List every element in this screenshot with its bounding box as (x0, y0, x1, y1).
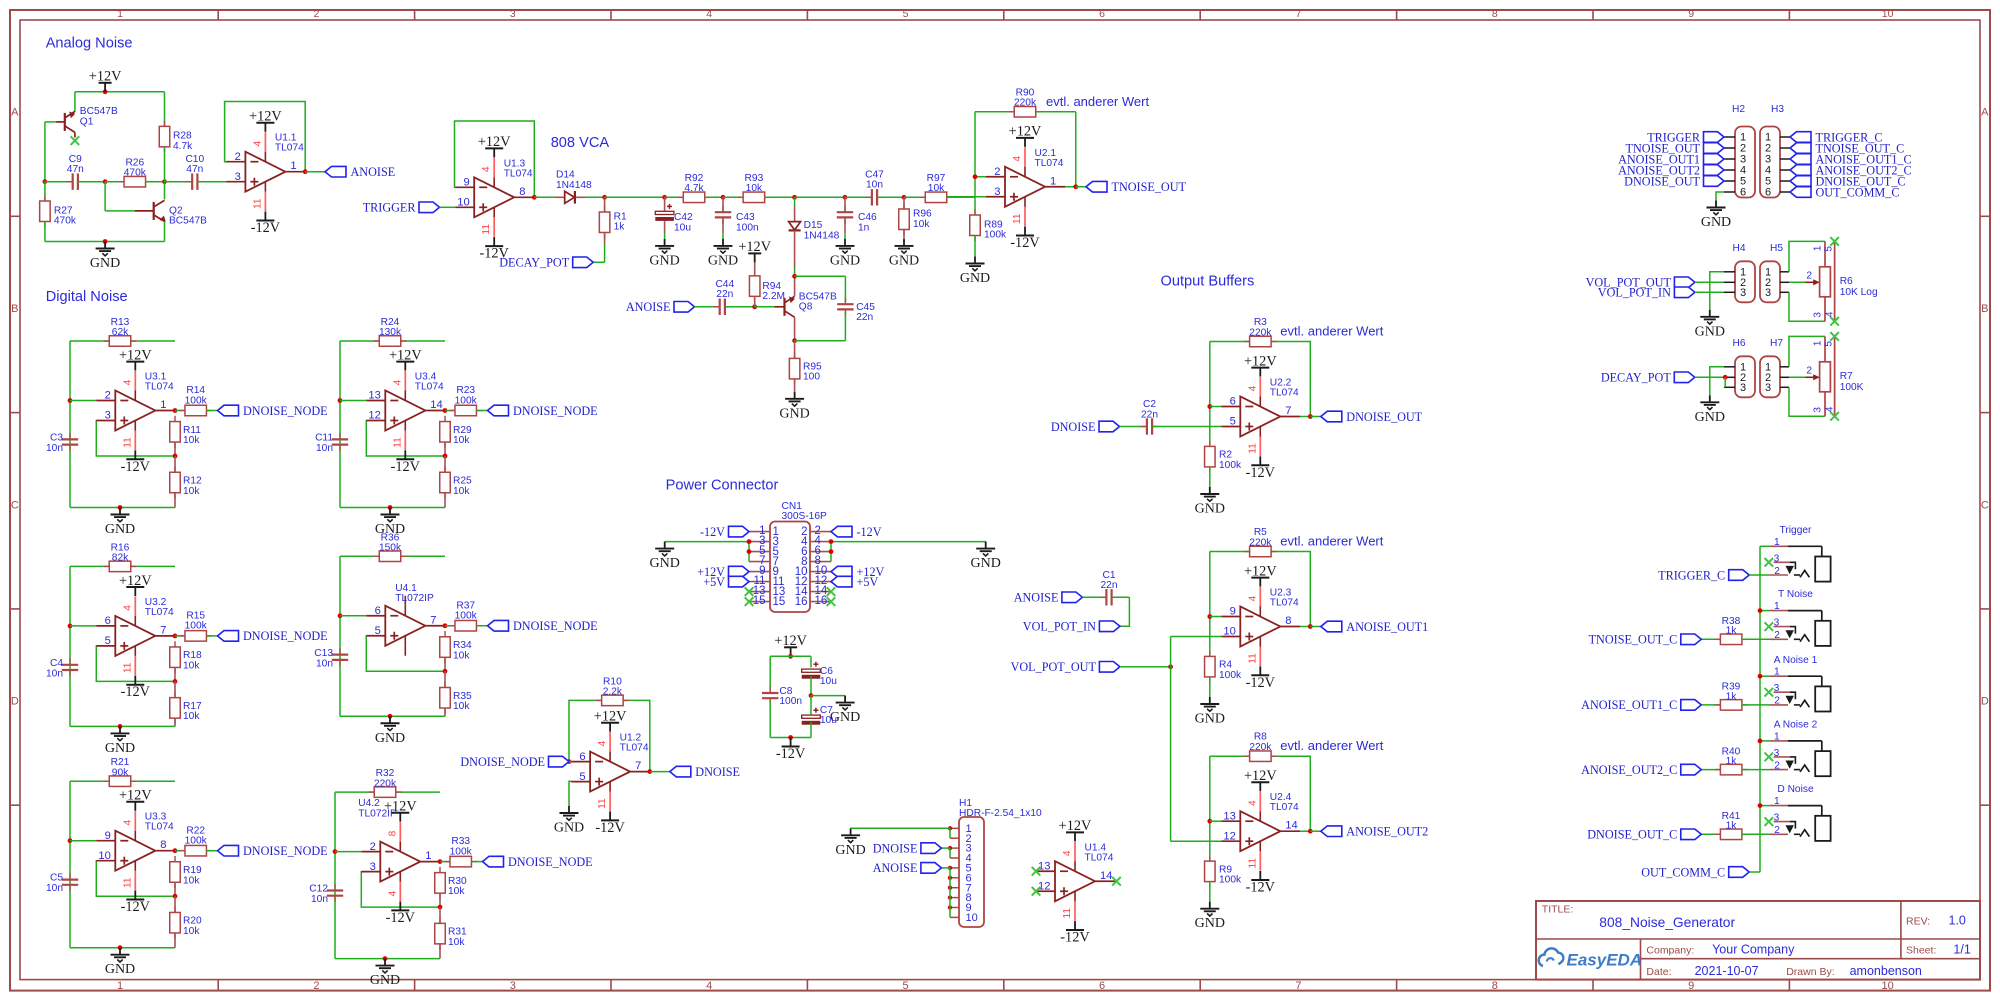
connector H1 (959, 817, 984, 927)
svg-text:4: 4 (122, 820, 133, 826)
pin H5 2 (1780, 281, 1789, 283)
wire CN1 gnd left (665, 541, 749, 543)
svg-text:1.0: 1.0 (1949, 914, 1966, 928)
junction C43 node (721, 195, 726, 200)
wire H7 pin3 to pot (1789, 387, 1825, 416)
svg-text:100n: 100n (736, 222, 759, 233)
capacitor C42 polarized (664, 197, 666, 211)
svg-text:TL074: TL074 (1035, 158, 1064, 169)
pin H1 7 (950, 887, 959, 889)
svg-text:2: 2 (1806, 365, 1812, 376)
wire H1 gnd (851, 827, 950, 829)
svg-text:300S-16P: 300S-16P (782, 511, 828, 522)
svg-text:TRIGGER: TRIGGER (363, 201, 417, 215)
resistor R4 (1205, 651, 1216, 683)
svg-text:5: 5 (903, 8, 909, 20)
resistor R33 output (440, 861, 450, 863)
svg-text:2: 2 (994, 166, 1000, 178)
svg-text:DNOISE_NODE: DNOISE_NODE (243, 629, 328, 643)
pin H2 5 (1724, 180, 1735, 182)
junction H6 pin2 (1723, 375, 1728, 380)
svg-text:GND: GND (971, 556, 1001, 571)
resistor R3 feedback (1244, 336, 1277, 347)
wire decoupling top (770, 655, 811, 657)
svg-text:1k: 1k (1726, 691, 1738, 702)
wire C1 to VOL_POT_IN (1120, 597, 1130, 626)
svg-text:11: 11 (392, 437, 403, 448)
svg-text:GND: GND (1695, 410, 1725, 425)
svg-text:OUT_COMM_C: OUT_COMM_C (1641, 865, 1725, 879)
svg-text:10n: 10n (46, 443, 63, 454)
title block (1536, 901, 1980, 980)
svg-text:13: 13 (368, 390, 380, 402)
resistor R32 feedback (369, 787, 402, 798)
wire H5 pin2 wiper (1789, 281, 1806, 283)
svg-text:14: 14 (430, 399, 442, 411)
svg-text:3: 3 (1774, 813, 1780, 824)
net flag OUT_COMM_C (1641, 865, 1749, 879)
svg-text:DNOISE_NODE: DNOISE_NODE (243, 404, 328, 418)
ground CN1 left (650, 542, 680, 572)
svg-text:-12V: -12V (251, 220, 281, 236)
svg-text:VOL_POT_IN: VOL_POT_IN (1023, 620, 1096, 634)
svg-text:1: 1 (1050, 175, 1056, 187)
pin CN1 4 (810, 541, 831, 543)
capacitor C7 polarized (810, 696, 812, 715)
junction C9 right (103, 179, 108, 184)
svg-text:4: 4 (252, 141, 263, 147)
svg-text:10k: 10k (183, 486, 200, 497)
pin H2 3 (1724, 158, 1735, 160)
wire H5 pin1 to pot (1789, 241, 1825, 271)
capacitor C13 (332, 648, 348, 666)
pin CN1 11 (749, 581, 770, 583)
wire U4.1 feedback top (340, 555, 445, 557)
pin H5 1 (1780, 271, 1789, 273)
svg-text:100k: 100k (185, 621, 208, 632)
svg-text:12: 12 (1038, 880, 1050, 892)
svg-text:22n: 22n (856, 312, 873, 323)
svg-text:4: 4 (706, 8, 712, 20)
capacitor C4 (62, 658, 78, 676)
capacitor C47 (845, 196, 872, 198)
wire U2.2 out (1310, 416, 1321, 418)
wire U2.1 out (1076, 186, 1086, 188)
svg-text:8: 8 (519, 186, 525, 198)
resistor R31 (439, 907, 441, 923)
svg-text:-12V: -12V (121, 684, 151, 700)
svg-text:10: 10 (1881, 980, 1893, 992)
wire U2.4 out stub link (1300, 830, 1310, 832)
resistor R34 (440, 631, 451, 663)
svg-text:5: 5 (105, 635, 111, 647)
svg-text:TRIGGER_C: TRIGGER_C (1658, 568, 1725, 582)
net flag DNOISE_OUT H2 (1624, 174, 1724, 188)
svg-text:TL074: TL074 (145, 382, 174, 393)
svg-text:220k: 220k (1249, 538, 1272, 549)
svg-text:4: 4 (481, 166, 492, 172)
wire U1.3 feedback (455, 121, 535, 197)
wire VOL_POT_IN H4 (1695, 291, 1724, 293)
pin CN1 7 (749, 561, 770, 563)
net flag TRIGGER_C jack (1658, 568, 1749, 582)
svg-text:ANOISE_OUT1: ANOISE_OUT1 (1346, 620, 1428, 634)
svg-text:10: 10 (98, 850, 110, 862)
svg-text:6: 6 (1099, 8, 1105, 20)
wire U3.4 left vertical (339, 341, 341, 508)
svg-text:4: 4 (1247, 800, 1258, 806)
ground U1.2 pin5 (554, 806, 584, 836)
ground R4 (1195, 697, 1225, 727)
svg-text:+5V: +5V (857, 575, 879, 589)
net flag VOL_POT_IN out (1023, 620, 1120, 634)
pin CN1 3 (749, 541, 770, 543)
wire U3.3 feedback top (70, 780, 175, 782)
wire U3.2 bottom (70, 725, 175, 727)
pin H6 1 (1724, 366, 1735, 368)
potentiometer R7 (1806, 336, 1835, 417)
connector H5 (1760, 261, 1780, 302)
svg-text:10k: 10k (746, 183, 763, 194)
svg-text:TNOISE_OUT_C: TNOISE_OUT_C (1589, 633, 1678, 647)
svg-text:3: 3 (1774, 553, 1780, 564)
svg-text:TL074: TL074 (620, 743, 649, 754)
svg-text:C11: C11 (315, 433, 333, 444)
svg-text:16: 16 (795, 596, 808, 608)
svg-text:4: 4 (1012, 156, 1023, 162)
resistor R39 (1701, 704, 1720, 706)
svg-text:11: 11 (252, 198, 263, 209)
pin H3 4 (1780, 169, 1791, 171)
svg-text:7: 7 (635, 760, 641, 772)
svg-text:14: 14 (1100, 870, 1112, 882)
junction U2.4 output (1308, 829, 1313, 834)
pin CN1 5 (749, 551, 770, 553)
svg-text:10k: 10k (913, 219, 930, 230)
svg-text:10: 10 (966, 912, 978, 924)
svg-text:3: 3 (1812, 407, 1823, 413)
junction rail (103, 89, 108, 94)
junction U3.4 ground (388, 505, 393, 510)
net flag ANOISE input VCA (626, 300, 695, 314)
transistor Q2 (135, 200, 166, 221)
svg-text:11: 11 (1247, 443, 1258, 454)
resistor R27 (44, 182, 46, 201)
resistor R93 (723, 196, 743, 198)
connector H2 (1735, 127, 1755, 198)
capacitor C12 (327, 884, 343, 902)
wire pin6 link (569, 761, 571, 763)
net flag ANOISE output (325, 165, 395, 179)
svg-text:808 VCA: 808 VCA (551, 135, 610, 151)
junction U3.3 divider (173, 894, 178, 899)
svg-text:4: 4 (1247, 385, 1258, 391)
wire left vertical (44, 122, 46, 182)
svg-text:10k: 10k (183, 926, 200, 937)
junction CN1 pin5 (747, 549, 752, 554)
resistor R20 (174, 896, 176, 912)
pin H1 4 (950, 857, 959, 859)
resistor R92 (665, 196, 684, 198)
resistor R95 (794, 341, 796, 359)
capacitor C45 branch (795, 275, 846, 277)
svg-text:EasyEDA: EasyEDA (1567, 951, 1643, 970)
svg-text:10n: 10n (866, 180, 883, 191)
svg-text:1k: 1k (614, 222, 626, 233)
net flag TNOISE_OUT H2 (1626, 141, 1724, 155)
svg-text:DNOISE_NODE: DNOISE_NODE (513, 404, 598, 418)
resistor R18 (170, 641, 181, 673)
svg-text:B: B (1981, 303, 1988, 315)
wire U2.2 left vertical (1209, 342, 1211, 447)
svg-text:4: 4 (597, 740, 608, 746)
svg-text:ANOISE: ANOISE (1014, 591, 1059, 605)
svg-text:8: 8 (387, 830, 398, 836)
svg-text:4: 4 (387, 890, 398, 896)
resistor R40 (1701, 769, 1720, 771)
junction U2.1 output (1073, 184, 1078, 189)
pin H1 3 (950, 847, 959, 849)
svg-text:-12V: -12V (121, 899, 151, 915)
junction bus A Noise 2 (1758, 739, 1763, 744)
resistor R19 (170, 856, 181, 888)
svg-text:4: 4 (1247, 595, 1258, 601)
pin CN1 10 (810, 571, 831, 573)
wire node down to U2.4 pin12 (1170, 667, 1172, 841)
wire U2.2 pin top link (1210, 406, 1222, 408)
wire U1.3 out to D14 (534, 196, 556, 198)
capacitor C11 (332, 433, 348, 451)
svg-text:+5V: +5V (703, 575, 725, 589)
svg-text:10: 10 (1882, 8, 1894, 20)
svg-text:3: 3 (1765, 287, 1771, 299)
junction CN1 pin3 (747, 539, 752, 544)
wire U2.3 out (1310, 626, 1321, 628)
svg-text:6: 6 (105, 615, 111, 627)
svg-text:TL072IP: TL072IP (358, 809, 397, 820)
svg-text:TL074: TL074 (1270, 598, 1299, 609)
net flag +5V CN1 pin12 (831, 575, 878, 589)
svg-text:3: 3 (510, 980, 516, 992)
svg-text:Output Buffers: Output Buffers (1161, 274, 1255, 290)
wire U2.3 feedback (1271, 552, 1310, 627)
wire U4.1 left vertical (339, 556, 341, 716)
resistor R14 output (175, 410, 185, 412)
wire bottom rail analog (45, 241, 165, 243)
resistor R12 (174, 456, 176, 472)
ground H6 (1695, 395, 1725, 425)
svg-text:H7: H7 (1770, 338, 1783, 349)
svg-text:10k: 10k (928, 183, 945, 194)
ground R2 (1195, 487, 1225, 517)
wire U3.3 pin top link (70, 840, 96, 842)
svg-text:-12V: -12V (1246, 880, 1276, 896)
pin H1 1 (950, 827, 959, 829)
wire U4.2 pin top link (335, 851, 361, 853)
svg-text:DNOISE_NODE: DNOISE_NODE (513, 619, 598, 633)
svg-text:TL074: TL074 (145, 822, 174, 833)
svg-text:3: 3 (1774, 683, 1780, 694)
junction D15 node (792, 195, 797, 200)
wire U2.1 out stub link (1065, 186, 1076, 188)
svg-text:10k: 10k (453, 701, 470, 712)
net flag DNOISE_NODE U3.3 (218, 844, 328, 858)
svg-text:Trigger: Trigger (1780, 525, 1812, 536)
wire U3.3 loop (95, 860, 98, 862)
wire Q2 emitter down (164, 221, 166, 241)
wire U4.1 bottom (340, 715, 445, 717)
ground H4 (1695, 310, 1725, 340)
no-connect R6 bottom (1830, 317, 1839, 326)
svg-text:4: 4 (1824, 406, 1835, 412)
svg-text:R8: R8 (1254, 732, 1267, 743)
svg-text:13: 13 (1223, 810, 1235, 822)
svg-text:3: 3 (105, 410, 111, 422)
capacitor C46 (844, 197, 846, 212)
net flag DECAY_POT (499, 256, 593, 270)
ground R95 (779, 392, 809, 422)
pin CN1 9 (749, 571, 770, 573)
wire U2.4 out (1310, 830, 1321, 832)
no-connect jack D Noise (1765, 817, 1774, 826)
svg-text:GND: GND (105, 522, 135, 537)
svg-text:100k: 100k (455, 395, 478, 406)
svg-text:GND: GND (830, 253, 860, 268)
no-connect CN1 pin14 (827, 587, 836, 596)
svg-text:6: 6 (1740, 187, 1746, 199)
wire U3.1 left vertical (69, 341, 71, 508)
ground U3.2 (105, 726, 135, 756)
svg-text:4: 4 (706, 980, 712, 992)
wire U3.4 pin top link (340, 400, 366, 402)
svg-text:evtl. anderer Wert: evtl. anderer Wert (1280, 534, 1383, 549)
jack T Noise (1760, 611, 1831, 646)
svg-text:90k: 90k (112, 767, 129, 778)
svg-text:3: 3 (994, 186, 1000, 198)
junction CN1 pin4 (829, 539, 834, 544)
wire U4.2 loop (360, 871, 363, 873)
svg-text:GND: GND (649, 253, 679, 268)
wire Q1 collector drop (74, 92, 76, 112)
svg-text:6: 6 (375, 605, 381, 617)
wire U2.2 out stub link (1300, 416, 1310, 418)
svg-text:11: 11 (597, 798, 608, 809)
svg-text:470k: 470k (124, 168, 147, 179)
svg-text:10: 10 (457, 197, 469, 209)
svg-text:GND: GND (835, 843, 865, 858)
svg-text:3: 3 (235, 171, 241, 183)
wire Q1 base to left rail (45, 121, 56, 123)
svg-text:GND: GND (779, 406, 809, 421)
svg-text:7: 7 (1285, 405, 1291, 417)
svg-text:4.7k: 4.7k (173, 141, 193, 152)
svg-text:1n: 1n (858, 222, 869, 233)
svg-text:-12V: -12V (391, 459, 421, 475)
resistor R25 (444, 456, 446, 472)
capacitor C10 (165, 181, 193, 183)
pin CN1 16 (810, 601, 831, 603)
net flag TRIGGER (363, 201, 440, 215)
net flag ANOISE H1 (941, 867, 950, 869)
svg-text:DNOISE_NODE: DNOISE_NODE (460, 755, 545, 769)
svg-text:Drawn By:: Drawn By: (1786, 966, 1834, 978)
svg-text:2: 2 (1774, 566, 1780, 577)
svg-text:1: 1 (1774, 667, 1780, 678)
ground H2 (1701, 201, 1731, 231)
svg-text:11: 11 (1247, 858, 1258, 869)
junction U3.4 divider (443, 454, 448, 459)
net flag TRIGGER_C H3 (1790, 130, 1883, 144)
svg-text:-12V: -12V (1246, 675, 1276, 691)
diode D15 (794, 197, 796, 206)
svg-text:3: 3 (370, 861, 376, 873)
net flag ANOISE_OUT2 H2 (1618, 163, 1724, 177)
svg-text:10u: 10u (674, 222, 691, 233)
ground U3.3 (105, 948, 135, 978)
wire U3.1 bottom (70, 507, 175, 509)
connector H6 (1735, 356, 1755, 397)
svg-text:2: 2 (370, 841, 376, 853)
svg-text:-12V: -12V (857, 525, 882, 539)
ground H1 (835, 828, 865, 858)
svg-text:470k: 470k (54, 216, 77, 227)
resistor R26 (105, 181, 124, 183)
wire base (755, 306, 775, 308)
svg-text:47n: 47n (67, 164, 84, 175)
svg-text:7: 7 (1295, 980, 1301, 992)
net flag VOL_POT_IN H4 (1598, 286, 1695, 300)
svg-text:808_Noise_Generator: 808_Noise_Generator (1599, 915, 1735, 930)
resistor R10 feedback (596, 695, 629, 706)
svg-text:-12V: -12V (595, 820, 625, 836)
svg-text:1k: 1k (1726, 756, 1738, 767)
svg-text:1: 1 (1812, 245, 1823, 251)
svg-text:A Noise 1: A Noise 1 (1774, 655, 1818, 666)
net flag TNOISE_OUT_C H3 (1790, 141, 1904, 155)
ground U3.4 (375, 508, 405, 538)
svg-text:4.7k: 4.7k (684, 183, 704, 194)
junction U3.1 pin top (68, 398, 73, 403)
svg-text:82k: 82k (112, 553, 129, 564)
svg-text:Q8: Q8 (799, 302, 813, 313)
wire U2.4 pin top link (1210, 820, 1222, 822)
svg-text:H2: H2 (1732, 104, 1745, 115)
svg-text:130k: 130k (379, 327, 402, 338)
resistor R28 (159, 121, 170, 153)
net flag DNOISE input (1051, 420, 1120, 434)
pin CN1 15 (749, 601, 770, 603)
svg-text:12: 12 (368, 410, 380, 422)
svg-text:5: 5 (1230, 416, 1236, 428)
wire U3.2 left vertical (69, 566, 71, 726)
resistor R2 (1205, 441, 1216, 473)
wire VOL_POT_OUT H4 (1695, 281, 1724, 283)
svg-text:GND: GND (105, 962, 135, 977)
wire U3.3 bottom (70, 947, 175, 949)
svg-text:DNOISE_NODE: DNOISE_NODE (243, 844, 328, 858)
wire U4.1 loop (365, 635, 368, 637)
svg-text:15: 15 (753, 595, 766, 607)
svg-text:10: 10 (1223, 626, 1235, 638)
svg-text:1: 1 (1812, 340, 1823, 346)
pin H3 3 (1780, 158, 1791, 160)
wire OUT_COMM_C (1749, 871, 1760, 873)
svg-text:2: 2 (1774, 696, 1780, 707)
svg-text:TL074: TL074 (1085, 852, 1114, 863)
wire U3.2 pin top link (70, 625, 96, 627)
wire TRIGGER to pin10 (440, 206, 456, 208)
resistor R94 (749, 270, 760, 302)
